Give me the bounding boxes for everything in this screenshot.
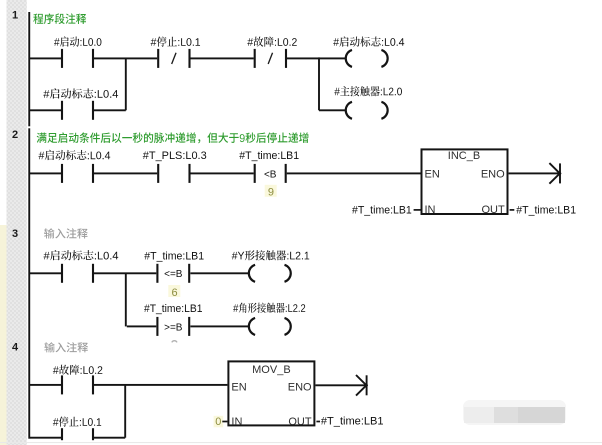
network 3 comment: [44, 228, 88, 238]
coil #主接触器:L2.0: [346, 102, 388, 119]
pin tick OUT: [510, 209, 515, 211]
network 4 comment: [44, 342, 88, 352]
svg-text:<=B: <=B: [164, 269, 183, 280]
label #启动:L0.0: [54, 36, 101, 46]
contact #T_PLS:L0.3 (NO): [157, 164, 190, 183]
wire parallel contact to junction: [94, 109, 126, 111]
svg-text:9: 9: [268, 186, 274, 198]
contact #停止:L0.1 (NO, parallel) net4: [61, 428, 94, 440]
svg-text:0: 0: [215, 416, 221, 428]
contact #停止:L0.1 (NC): [157, 49, 190, 68]
svg-text:EN: EN: [425, 169, 440, 181]
compare constant 6 highlight: [168, 285, 180, 297]
svg-text:#T_time:LB1: #T_time:LB1: [516, 204, 576, 216]
svg-text:OUT: OUT: [288, 416, 312, 428]
compare contact #T_time:LB1 &gt;=B (branch): [156, 317, 190, 336]
function box INC_B: [422, 149, 508, 216]
svg-text:MOV_B: MOV_B: [252, 364, 291, 376]
svg-text:OUT: OUT: [481, 204, 505, 216]
label #故障:L0.2 net4: [53, 365, 102, 375]
faint clipped constant under &gt;=B: [172, 341, 177, 343]
label #启动标志:L0.4 parallel: [43, 88, 118, 98]
svg-text:INC_B: INC_B: [448, 150, 480, 162]
pin tick IN: [414, 209, 421, 211]
svg-text:#T_time:LB1: #T_time:LB1: [144, 250, 204, 262]
wire 启动 to 停止: [94, 57, 157, 59]
network 1 comment: [33, 13, 86, 24]
wire parallel to junction net4: [94, 437, 125, 439]
junction coil parallel branch: [318, 57, 320, 110]
svg-text:#T_time:LB1: #T_time:LB1: [144, 303, 203, 315]
svg-text:3: 3: [12, 228, 18, 240]
svg-text:>=B: >=B: [164, 322, 183, 333]
compare contact #T_time:LB1 &lt;B 9: [254, 164, 287, 183]
label #故障:L0.2: [247, 37, 296, 47]
svg-text:1: 1: [12, 10, 18, 22]
label coil #角形接触器:L2.2: [233, 303, 305, 313]
watermark smudge: [463, 400, 566, 425]
contact #启动标志:L0.4 (NO, parallel): [61, 101, 94, 120]
wire 停止 to 故障: [191, 57, 254, 59]
function box MOV_B: [228, 361, 314, 428]
wire rail to contact net3: [30, 272, 61, 274]
svg-text:#T_PLS:L0.3: #T_PLS:L0.3: [143, 150, 207, 162]
svg-text:IN: IN: [231, 416, 242, 428]
wire ENO to arrow net4: [315, 384, 366, 386]
wire net3 c1 to compare: [94, 272, 156, 274]
label #停止:L0.1 net4: [53, 417, 101, 427]
coil #Y形接触器:L2.1: [249, 265, 291, 282]
pin tick 0-IN: [222, 421, 227, 423]
label #T_time:LB1 net3 row2 background: [142, 303, 203, 314]
svg-text:<B: <B: [264, 169, 277, 180]
label #启动标志:L0.4 net3: [44, 250, 119, 260]
svg-text:ENO: ENO: [288, 382, 312, 394]
wire branch rung net4: [30, 437, 61, 439]
wire 故障 to coil branch: [287, 57, 346, 59]
wire compare to coil Y: [190, 272, 249, 274]
junction net3 branch: [125, 273, 127, 326]
wire rail to contact net2: [30, 172, 61, 174]
open arrow net4: [356, 375, 368, 396]
compare constant 9 highlight: [265, 185, 277, 197]
pin tick OUT net4: [316, 421, 320, 423]
wire net2 c1-c2: [94, 172, 157, 174]
left margin cream strip: [0, 225, 7, 445]
coil #启动标志:L0.4: [346, 50, 388, 67]
label coil #Y形接触器:L2.1: [232, 250, 310, 260]
wire to coil #主接触器: [319, 109, 346, 111]
svg-text:#T_time:LB1: #T_time:LB1: [321, 416, 384, 428]
open arrow net2: [549, 163, 561, 184]
faint bottom divider: [0, 442, 602, 443]
label #停止:L0.1: [151, 37, 200, 47]
compare contact #T_time:LB1 &lt;=B 6: [156, 264, 190, 283]
junction branch down after 启动 contact: [125, 58, 127, 110]
constant 0 highlight: [214, 416, 224, 428]
svg-text:EN: EN: [231, 382, 246, 394]
contact #故障:L0.2 (NO) net4: [61, 375, 94, 394]
svg-text:6: 6: [171, 287, 177, 299]
svg-text:#T_time:LB1: #T_time:LB1: [239, 150, 299, 162]
svg-text:ENO: ENO: [481, 169, 505, 181]
label coil #主接触器:L2.0: [334, 86, 402, 96]
contact #启动:L0.0 (NO): [61, 49, 94, 68]
wire compare2 to coil 角形: [190, 325, 249, 327]
wire net4 to MOV_B EN: [94, 384, 227, 386]
wire compare to INC_B EN: [287, 172, 421, 174]
svg-text:2: 2: [12, 129, 18, 141]
network 2 comment: [37, 132, 309, 143]
wire rail to contact 启动: [30, 57, 61, 59]
network number column: [7, 0, 27, 445]
junction net4 branch: [124, 385, 126, 438]
label #启动标志:L0.4 net2: [39, 150, 111, 160]
contact #启动标志:L0.4 (NO) net3: [61, 264, 94, 283]
wire branch rung net1: [30, 109, 61, 111]
wire rail to contact net4: [30, 384, 61, 386]
label coil #启动标志:L0.4: [333, 36, 404, 46]
coil #角形接触器:L2.2: [249, 318, 291, 335]
wire ENO to arrow: [509, 172, 560, 174]
wire branch to compare2: [127, 325, 157, 327]
svg-text:IN: IN: [425, 204, 436, 216]
wire net2 c2-c3: [191, 172, 254, 174]
left power rail: [28, 12, 30, 126]
svg-text:4: 4: [12, 341, 19, 353]
svg-text:#T_time:LB1: #T_time:LB1: [352, 204, 412, 216]
contact #启动标志:L0.4 (NO) net2: [61, 164, 94, 183]
contact #故障:L0.2 (NC): [254, 49, 287, 68]
